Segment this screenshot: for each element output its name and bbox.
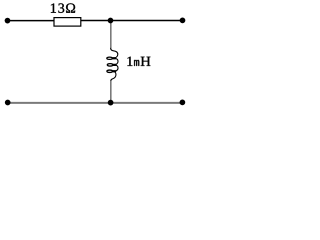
node dot top-right terminal xyxy=(180,18,186,24)
wire vertical lower segment xyxy=(110,81,112,103)
node dot bottom-left terminal xyxy=(5,100,11,106)
inductor L1 crossover blobs xyxy=(113,58,115,71)
node dot top-left terminal xyxy=(5,18,11,24)
node junction dot bottom-middle xyxy=(108,100,114,106)
resistor R1 box xyxy=(54,18,81,27)
inductor L1 coil xyxy=(107,48,118,81)
resistor R1 value label 13 ohms xyxy=(51,3,75,12)
wire top-right segment xyxy=(81,20,183,22)
node dot bottom-right terminal xyxy=(180,100,186,106)
wire vertical upper segment xyxy=(110,22,112,48)
wire bottom rail xyxy=(8,102,183,104)
wire top-left segment xyxy=(8,20,55,22)
inductor L1 value label 1mH xyxy=(127,57,150,66)
node junction dot top-middle xyxy=(108,18,114,24)
